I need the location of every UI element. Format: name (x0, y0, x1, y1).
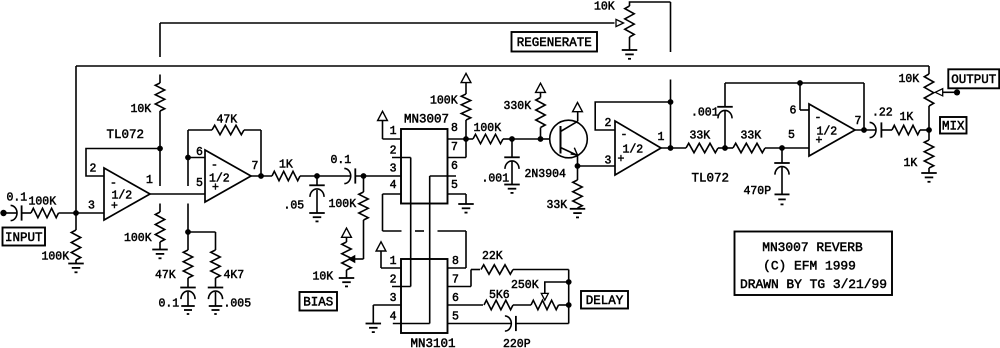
svg-text:3: 3 (88, 200, 95, 213)
svg-text:1: 1 (658, 131, 665, 144)
power arrow V+ MN3007 pin1 (378, 111, 388, 120)
resistor 1K series (272, 159, 300, 181)
wire (59, 212, 105, 214)
svg-text:3: 3 (390, 292, 397, 305)
node input junction (73, 210, 79, 216)
wire regen pot top down to op3 node (670, 2, 672, 148)
ground input 100K (68, 264, 84, 273)
wire dry signal rail (76, 65, 929, 67)
svg-text:10K: 10K (131, 103, 152, 116)
DELAY label box (581, 291, 628, 309)
capacitor .05 to ground (284, 176, 325, 213)
BIAS label box (300, 292, 338, 311)
svg-text:100K: 100K (29, 196, 57, 209)
wire MN3101 pin5 stub (448, 323, 512, 325)
TL072 label (107, 128, 145, 142)
svg-text:.05: .05 (284, 200, 305, 213)
resistor 33K second (733, 130, 765, 153)
capacitor .001 feedback (691, 83, 733, 148)
svg-text:MN3007 REVERB: MN3007 REVERB (762, 240, 863, 255)
wire MN3101 pin8 stub (448, 267, 467, 269)
svg-text:250K: 250K (511, 279, 539, 292)
wire emitter to op3 pin3 (578, 165, 616, 167)
svg-text:5: 5 (452, 311, 459, 324)
wire 250K to delay node (559, 304, 569, 306)
svg-text:330K: 330K (504, 100, 532, 113)
svg-text:5: 5 (788, 129, 795, 142)
svg-text:10K: 10K (899, 73, 920, 86)
ground MN3101 pin3 (366, 324, 382, 333)
resistor 33K emitter to ground (547, 166, 583, 212)
svg-text:100K: 100K (474, 122, 502, 135)
wire op2 output (251, 175, 272, 177)
ground .005 cap (209, 306, 223, 314)
svg-text:MN3007: MN3007 (404, 113, 449, 127)
svg-text:0.1: 0.1 (159, 298, 180, 311)
svg-text:3: 3 (390, 163, 397, 176)
node 1K-.05 junction (314, 173, 320, 179)
svg-text:1: 1 (390, 125, 397, 138)
wire op1 pin2 feedback loop (86, 149, 160, 177)
svg-text:MIX: MIX (942, 120, 965, 134)
svg-text:1K: 1K (279, 159, 293, 172)
wire MN3101 pin3 to ground (373, 305, 401, 324)
svg-text:1/2: 1/2 (817, 126, 838, 139)
svg-text:1/2: 1/2 (112, 190, 133, 203)
node 330K junction (538, 136, 544, 142)
node op3 output junction (668, 145, 674, 151)
wire 220P to delay node (516, 323, 569, 325)
wire 5K6 to 250K (513, 304, 531, 306)
svg-text:-: - (815, 112, 822, 125)
ground 470P (775, 194, 790, 204)
ground .05 cap (309, 213, 325, 221)
svg-text:1K: 1K (900, 111, 914, 124)
wire MN3007 pin5 to ground (448, 194, 467, 204)
capacitor .005 under 4K7 (208, 288, 251, 311)
svg-text:6: 6 (452, 292, 459, 305)
svg-text:2N3904: 2N3904 (525, 168, 567, 181)
resistor 330K (504, 92, 546, 139)
svg-text:1/2: 1/2 (623, 144, 644, 157)
wire op4 feedback top (725, 82, 864, 84)
wire op2 pin6 node down (187, 158, 189, 233)
resistor 100K input series (29, 196, 59, 218)
svg-text:2: 2 (605, 117, 612, 130)
REGENERATE label box (512, 32, 598, 52)
svg-text:(C) EFM 1999: (C) EFM 1999 (763, 259, 856, 274)
svg-text:100K: 100K (329, 198, 357, 211)
capacitor 0.1 series mid (331, 154, 356, 184)
potentiometer 250K delay (511, 279, 569, 310)
transistor Q1 2N3904 (525, 112, 588, 181)
svg-text:.001: .001 (691, 107, 719, 120)
svg-text:7: 7 (452, 274, 459, 287)
op-amp U4B TL072 1/2 (788, 104, 861, 156)
svg-text:10K: 10K (313, 271, 334, 284)
OUTPUT label box (948, 69, 999, 88)
resistor 100K op1 feedback to ground (124, 149, 165, 250)
svg-text:1: 1 (390, 255, 397, 268)
potentiometer 10K bias (313, 228, 355, 283)
wire 33K to op4 pin5 (765, 147, 809, 149)
svg-text:MN3101: MN3101 (411, 337, 456, 348)
wire MN3007 pin7 tie to pin8 (448, 139, 467, 158)
svg-text:220P: 220P (503, 338, 531, 348)
wire input node up to dry rail (75, 66, 77, 213)
svg-text:100K: 100K (124, 232, 152, 245)
node delay top (566, 279, 572, 285)
svg-text:3: 3 (605, 155, 612, 168)
node MN3007 pin3 junction (361, 173, 367, 179)
wire op4 output up (863, 83, 865, 130)
svg-text:1/2: 1/2 (209, 173, 230, 186)
svg-text:-: - (110, 177, 117, 190)
svg-text:22K: 22K (482, 250, 503, 263)
svg-text:10K: 10K (594, 1, 615, 14)
svg-text:470P: 470P (744, 185, 772, 198)
node op4 pin6 feedback junction (797, 80, 803, 86)
svg-text:0.1: 0.1 (7, 192, 28, 205)
capacitor .001 base to ground (482, 139, 520, 186)
wire 1K to mix node (920, 129, 929, 131)
svg-text:4: 4 (390, 311, 397, 324)
op-amp U1A TL072 1/2 (88, 163, 153, 221)
resistor 5K6 (484, 289, 513, 310)
svg-text:4K7: 4K7 (224, 269, 245, 282)
potentiometer 10K output (899, 66, 958, 130)
svg-text:DRAWN BY TG 3/21/99: DRAWN BY TG 3/21/99 (740, 277, 887, 292)
svg-text:INPUT: INPUT (5, 231, 43, 245)
wire op2 pin6 (188, 157, 205, 159)
node emitter junction (575, 163, 581, 169)
svg-text:8: 8 (452, 255, 459, 268)
svg-text:5: 5 (196, 177, 203, 190)
wire MN3007 pin2 to MN3101 pin2 (392, 158, 411, 287)
ground 0.1 cap (181, 306, 195, 314)
capacitor 0.1 input (7, 192, 28, 221)
node op2 pin6 junction (185, 155, 191, 161)
ground 33K emitter (570, 209, 586, 218)
wire (300, 175, 351, 177)
ground regen pot (622, 50, 638, 59)
svg-text:2: 2 (390, 145, 397, 158)
resistor 100K input to ground (42, 213, 81, 264)
svg-text:7: 7 (252, 160, 259, 173)
svg-text:6: 6 (451, 160, 458, 173)
capacitor 470P to ground (744, 148, 790, 198)
svg-text:.005: .005 (224, 298, 252, 311)
resistor 33K first (686, 130, 718, 153)
capacitor .22 output (870, 107, 893, 138)
svg-text:OUTPUT: OUTPUT (951, 73, 997, 87)
node op1 feedback junction (157, 146, 163, 152)
svg-text:100K: 100K (430, 95, 458, 108)
svg-text:REGENERATE: REGENERATE (517, 36, 592, 50)
svg-text:BIAS: BIAS (303, 296, 333, 310)
wire (718, 147, 733, 149)
svg-text:0.1: 0.1 (331, 154, 352, 167)
svg-text:7: 7 (451, 141, 458, 154)
svg-text:2: 2 (390, 274, 397, 287)
node op4 output junction (861, 127, 867, 133)
resistor 47K to cap (155, 232, 193, 288)
svg-text:33K: 33K (741, 130, 762, 143)
svg-text:1: 1 (146, 174, 153, 187)
resistor 22K (481, 250, 513, 274)
power arrow V+ 330K (536, 83, 546, 92)
svg-text:4: 4 (390, 179, 397, 192)
power arrow V+ collector (573, 103, 583, 112)
resistor 10K regen injection (131, 23, 165, 149)
svg-text:DELAY: DELAY (586, 294, 624, 308)
wire MN3101 pin1 (381, 251, 401, 268)
wire feedback to pin6 (800, 83, 809, 110)
resistor 100K series base (466, 122, 512, 144)
wire 22K to delay node (513, 270, 569, 324)
svg-text:5K6: 5K6 (489, 289, 510, 302)
svg-text:1K: 1K (904, 157, 918, 170)
node MN3007 pin8 junction (463, 136, 469, 142)
capacitor 220P (503, 316, 531, 348)
output terminal (954, 89, 960, 95)
svg-text:6: 6 (790, 105, 797, 118)
svg-text:33K: 33K (690, 130, 711, 143)
capacitor 0.1 under 47K (159, 288, 196, 311)
ground MN3007 pin5 (458, 204, 474, 213)
svg-text:2: 2 (90, 163, 97, 176)
wire (22, 212, 31, 214)
resistor 100K bias (329, 176, 369, 259)
TL072 label second (692, 172, 730, 186)
svg-text:100K: 100K (42, 251, 70, 264)
node 33K junction (722, 145, 728, 151)
wire MN3007 pin8 stub (448, 138, 467, 140)
wire base node to 330K node (512, 138, 541, 140)
svg-text:7: 7 (855, 115, 862, 128)
node 100K-.001 junction (509, 136, 515, 142)
op-amp U1B TL072 1/2 (196, 146, 258, 202)
ground bias pot (339, 278, 355, 286)
potentiometer 10K regenerate (594, 1, 671, 51)
ground .001 cap (504, 185, 520, 193)
resistor 100K pullup (430, 83, 471, 139)
wire op4 output (855, 129, 876, 131)
svg-text:5: 5 (451, 179, 458, 192)
node 470P junction (779, 145, 785, 151)
IC U2 MN3007 (390, 113, 458, 204)
resistor 4K7 to cap (211, 232, 244, 288)
wire op1 output (150, 193, 205, 195)
title box (735, 232, 893, 296)
ground op1 100K (152, 250, 168, 259)
power arrow V+ 100K pullup (461, 73, 471, 82)
wire op3 output (661, 147, 686, 149)
ground mix 1K (921, 173, 937, 182)
resistor 1K mix to ground (904, 130, 934, 173)
resistor 47K op2 feedback (188, 114, 261, 177)
svg-text:47K: 47K (155, 269, 176, 282)
wire MN3101 pin6 stub (448, 304, 484, 306)
node delay bottom (566, 302, 572, 308)
svg-text:-: - (211, 159, 218, 172)
svg-text:47K: 47K (217, 114, 238, 127)
node 47K-4K7 junction (185, 229, 191, 235)
svg-text:.001: .001 (482, 173, 510, 186)
wire (4, 212, 17, 214)
svg-text:33K: 33K (547, 199, 568, 212)
op-amp U4A TL072 1/2 (605, 117, 665, 175)
power arrow V+ MN3101 pin1 (376, 242, 386, 251)
INPUT label box (3, 228, 46, 246)
wire base wire (541, 138, 551, 140)
node op3 feedback junction (668, 99, 674, 105)
node op2 output junction (258, 173, 264, 179)
svg-text:TL072: TL072 (692, 172, 730, 186)
node mix junction (926, 127, 932, 133)
wire MN3007 pin1 (383, 121, 402, 140)
svg-text:TL072: TL072 (107, 128, 145, 142)
wire signal to MN3007 pin3 (355, 175, 401, 177)
wire regen wiper line (160, 22, 615, 24)
wire MN3007 pin6 to MN3101 pin4 (393, 176, 456, 324)
input terminal (0, 210, 6, 216)
MIX label box (940, 117, 967, 134)
wire MN3101 pin7 to 22K (448, 270, 481, 287)
wire MN3007 pin4 to MN3101 pin8 (383, 194, 467, 268)
svg-text:8: 8 (451, 122, 458, 135)
wire to 4K7 (188, 231, 216, 233)
wire op3 pin2 feedback (595, 102, 670, 130)
wire (881, 129, 892, 131)
svg-text:.22: .22 (872, 107, 893, 120)
svg-text:-: - (621, 129, 628, 142)
resistor 1K output (892, 111, 920, 135)
IC U3 MN3101 (390, 255, 459, 348)
